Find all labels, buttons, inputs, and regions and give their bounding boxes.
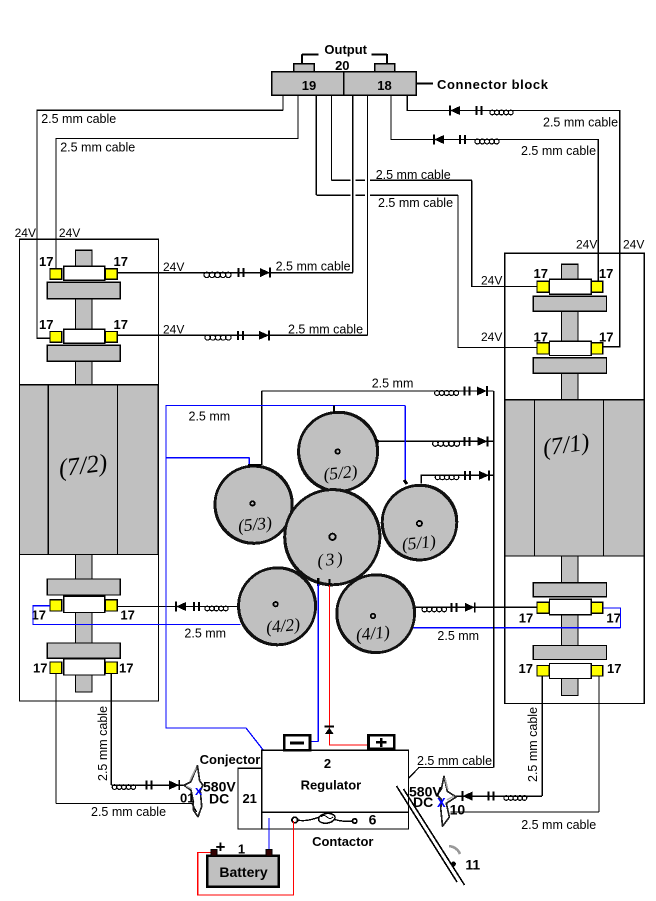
svg-text:2.5 mm cable: 2.5 mm cable: [521, 818, 596, 832]
svg-text:DC: DC: [209, 791, 229, 807]
svg-text:2.5 mm: 2.5 mm: [437, 629, 479, 643]
svg-text:Output: Output: [324, 42, 367, 57]
svg-text:17: 17: [39, 317, 53, 332]
svg-text:17: 17: [33, 661, 47, 676]
svg-text:17: 17: [119, 661, 133, 676]
svg-text:24V: 24V: [481, 330, 502, 344]
svg-text:01: 01: [180, 791, 194, 806]
svg-text:X: X: [437, 795, 446, 810]
svg-text:2: 2: [324, 756, 331, 771]
svg-text:24V: 24V: [163, 260, 184, 274]
svg-text:2.5 mm cable: 2.5 mm cable: [417, 754, 492, 768]
svg-text:17: 17: [534, 330, 548, 345]
svg-text:19: 19: [302, 78, 316, 93]
svg-text:Conjector: Conjector: [200, 752, 261, 767]
svg-text:Battery: Battery: [219, 864, 267, 880]
svg-text:17: 17: [519, 661, 533, 676]
svg-text:2.5 mm cable: 2.5 mm cable: [60, 141, 135, 155]
svg-text:17: 17: [32, 608, 46, 623]
svg-text:24V: 24V: [576, 238, 597, 252]
svg-text:2.5 mm cable: 2.5 mm cable: [41, 112, 116, 126]
svg-text:24V: 24V: [163, 323, 184, 337]
svg-text:2.5 mm cable: 2.5 mm cable: [96, 706, 110, 781]
svg-text:2.5 mm cable: 2.5 mm cable: [288, 323, 363, 337]
svg-text:24V: 24V: [15, 226, 36, 240]
svg-text:17: 17: [519, 611, 533, 626]
svg-text:17: 17: [114, 317, 128, 332]
svg-text:2.5 mm cable: 2.5 mm cable: [276, 260, 351, 274]
svg-text:2.5 mm: 2.5 mm: [372, 377, 414, 391]
svg-text:(5/3): (5/3): [237, 512, 273, 535]
svg-text:10: 10: [450, 802, 466, 818]
svg-text:2.5 mm: 2.5 mm: [189, 410, 231, 424]
svg-text:17: 17: [599, 266, 613, 281]
svg-text:17: 17: [120, 608, 134, 623]
svg-text:Connector block: Connector block: [437, 77, 549, 92]
svg-text:18: 18: [377, 78, 391, 93]
svg-text:17: 17: [607, 661, 621, 676]
svg-text:24V: 24V: [623, 238, 644, 252]
svg-text:2.5 mm cable: 2.5 mm cable: [378, 196, 453, 210]
svg-text:+: +: [216, 838, 226, 857]
svg-text:Contactor: Contactor: [312, 834, 373, 849]
svg-text:x: x: [195, 783, 203, 798]
svg-text:(5/1): (5/1): [401, 531, 437, 554]
svg-text:2.5 mm cable: 2.5 mm cable: [543, 116, 618, 130]
svg-text:1: 1: [238, 842, 245, 857]
svg-text:(5/2): (5/2): [322, 461, 358, 484]
svg-text:17: 17: [534, 266, 548, 281]
svg-text:(4/1): (4/1): [355, 621, 391, 644]
svg-text:2.5 mm cable: 2.5 mm cable: [91, 805, 166, 819]
svg-text:Regulator: Regulator: [301, 778, 362, 793]
svg-text:2.5 mm: 2.5 mm: [184, 627, 226, 641]
svg-text:17: 17: [39, 254, 53, 269]
svg-text:20: 20: [335, 58, 349, 73]
svg-text:2.5 mm cable: 2.5 mm cable: [376, 168, 451, 182]
svg-text:24V: 24V: [59, 226, 80, 240]
svg-text:6: 6: [369, 812, 377, 828]
svg-text:17: 17: [606, 611, 620, 626]
svg-text:2.5 mm cable: 2.5 mm cable: [526, 707, 540, 782]
svg-text:11: 11: [465, 857, 480, 873]
svg-text:(3): (3): [316, 548, 346, 571]
svg-text:17: 17: [114, 254, 128, 269]
svg-text:2.5 mm cable: 2.5 mm cable: [521, 144, 596, 158]
svg-text:17: 17: [599, 330, 613, 345]
svg-text:24V: 24V: [481, 274, 502, 288]
svg-text:(4/2): (4/2): [265, 614, 301, 637]
svg-text:21: 21: [242, 791, 256, 806]
